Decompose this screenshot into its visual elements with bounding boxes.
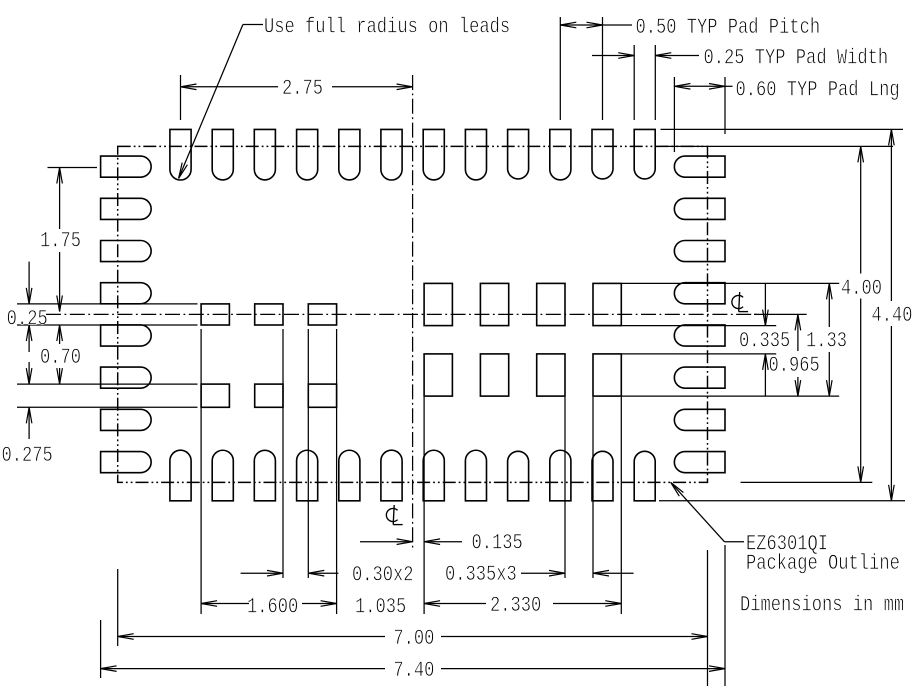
dim 7.00 line — [118, 636, 385, 638]
top pad 7 — [423, 129, 444, 180]
dim 0.60 extension lines — [673, 77, 675, 152]
package outline 7.00 x 4.00 mm (phantom rectangle) — [118, 146, 708, 482]
svg-text:0.275: 0.275 — [2, 442, 53, 468]
right pad 2 — [674, 198, 725, 219]
center pad row B right 4 — [593, 354, 621, 396]
svg-text:7.00: 7.00 — [393, 625, 434, 651]
dim 0.25W extension lines — [633, 45, 635, 120]
right pad 3 — [674, 241, 725, 262]
top pad 9 — [508, 129, 529, 179]
ext line sq2 right — [282, 329, 284, 578]
top pad 11 — [592, 129, 613, 179]
dim 0.335x3 line — [521, 572, 565, 574]
ext line top of pads (4.40) — [661, 128, 904, 130]
dim 0.70 line — [59, 325, 61, 344]
center pad row B right 1 — [424, 354, 452, 396]
bottom pad 3 — [254, 450, 275, 501]
center pad row A right 1 — [424, 283, 452, 325]
svg-text:1.75: 1.75 — [40, 227, 81, 253]
bottom pad 8 — [465, 450, 486, 501]
left pad 4 — [101, 283, 152, 304]
dim 0.25 arrows — [28, 262, 30, 304]
dim 0.60 line — [674, 85, 725, 87]
dim 0.965 line — [797, 314, 799, 351]
dim 0.50 line — [560, 24, 602, 26]
ext line top outline (4.00) — [661, 145, 894, 147]
dim 4.00 line — [860, 146, 862, 273]
dim 0.135 line — [360, 541, 413, 543]
ext line sq3 left — [307, 329, 309, 578]
horizontal centerline — [46, 313, 758, 315]
ext line centerline right — [754, 313, 807, 315]
right pad 8 — [674, 452, 725, 473]
center pad row A left 2 — [255, 304, 283, 325]
bottom pad 7 — [423, 450, 444, 501]
top pad 2 — [212, 129, 233, 180]
ext line row B top — [622, 353, 776, 355]
center pad row B right 3 — [537, 354, 565, 396]
dim 1.33 line — [828, 283, 830, 327]
top pad 3 — [254, 129, 275, 180]
ext line row B top left — [17, 383, 198, 385]
top pad 5 — [339, 129, 360, 180]
ext line row B bottom — [622, 395, 839, 397]
top pad 10 — [550, 129, 571, 180]
bottom pad 11 — [592, 451, 613, 501]
ext line row A bottom left — [17, 324, 198, 326]
centerline symbol bottom — [386, 505, 402, 525]
center pad row A right 2 — [480, 283, 508, 325]
svg-text:1.33: 1.33 — [806, 327, 847, 353]
bottom pad 12 — [634, 451, 655, 501]
right pad 6 — [674, 367, 725, 388]
svg-text:0.25: 0.25 — [7, 305, 48, 331]
left pad 1 — [101, 156, 152, 177]
center pad row B left 3 — [308, 384, 336, 407]
dim 0.50 extension lines — [559, 17, 561, 120]
ext line sq3 right — [336, 329, 338, 614]
centerline symbol right — [732, 292, 748, 312]
right pad 1 — [674, 156, 725, 177]
svg-text:1.035: 1.035 — [355, 593, 406, 619]
dim 0.335 line — [764, 283, 766, 325]
svg-text:0.50 TYP Pad Pitch: 0.50 TYP Pad Pitch — [636, 14, 821, 40]
dim 7.40 extension lines — [100, 620, 102, 678]
bottom pad 5 — [339, 450, 360, 501]
dim 2.75 extension line — [180, 75, 182, 120]
dim 2.75 line — [181, 86, 279, 88]
center pad row A left 3 — [308, 304, 336, 325]
right pad 4 — [674, 283, 725, 304]
top pad 1 — [170, 129, 191, 180]
svg-text:1.600: 1.600 — [247, 593, 298, 619]
dim 1.600 line — [201, 603, 249, 605]
svg-text:0.70: 0.70 — [40, 344, 81, 370]
center pad row B left 2 — [255, 384, 283, 407]
ext line rect4 left — [592, 397, 594, 578]
ext line row A top left — [17, 303, 198, 305]
svg-text:4.00: 4.00 — [841, 275, 882, 301]
dim 7.40 line — [101, 668, 385, 670]
left pad 5 — [101, 325, 152, 346]
bottom pad 10 — [550, 450, 571, 501]
center pad row B left 1 — [201, 384, 229, 407]
top pad 4 — [297, 129, 318, 180]
right pad 5 — [674, 325, 725, 346]
svg-text:0.965: 0.965 — [769, 352, 820, 378]
left pad 7 — [101, 409, 152, 430]
center pad row A right 3 — [537, 283, 565, 325]
dim 0.25W line — [592, 55, 634, 57]
svg-text:Package Outline: Package Outline — [746, 550, 900, 576]
ext line row A top — [622, 282, 839, 284]
dim 1.75 extension line — [48, 167, 98, 169]
dim 4.40 line — [890, 129, 892, 301]
bottom pad 6 — [381, 450, 402, 501]
dim 0.275 arrow — [28, 362, 30, 384]
ext line bottom outline (4.00) — [741, 481, 873, 483]
bottom pad 4 — [297, 450, 318, 501]
top pad 12 — [634, 129, 655, 179]
leader line to top pad 1 — [243, 24, 263, 26]
ext line row B bottom left — [17, 406, 198, 408]
dim 1.75 line — [59, 168, 61, 230]
ext line right group right — [620, 397, 622, 614]
svg-text:Use full radius on leads: Use full radius on leads — [264, 13, 510, 39]
dim 2.330 line — [424, 603, 486, 605]
svg-text:0.25 TYP Pad Width: 0.25 TYP Pad Width — [704, 44, 889, 70]
svg-text:0.135: 0.135 — [472, 529, 523, 555]
vertical centerline — [412, 75, 414, 551]
svg-text:0.335x3: 0.335x3 — [445, 561, 517, 587]
left pad 2 — [101, 198, 152, 219]
dim 0.30x2 line — [241, 572, 283, 574]
center pad row A left 1 — [201, 304, 229, 325]
left pad 6 — [101, 367, 152, 388]
ext line rect3 right — [564, 397, 566, 578]
ext line row A bottom — [622, 325, 776, 327]
leader EZ6301QI line — [724, 541, 744, 543]
svg-text:0.60 TYP Pad Lng: 0.60 TYP Pad Lng — [736, 76, 900, 102]
svg-text:0.335: 0.335 — [739, 327, 790, 353]
left pad 3 — [101, 241, 152, 262]
svg-text:2.75: 2.75 — [282, 75, 323, 101]
bottom pad 1 — [170, 450, 191, 501]
svg-text:0.30x2: 0.30x2 — [352, 561, 414, 587]
left pad 8 — [101, 452, 152, 473]
bottom pad 2 — [212, 450, 233, 501]
center pad row B right 2 — [480, 354, 508, 396]
dim 7.00 extension lines — [117, 569, 119, 646]
svg-text:Dimensions in mm: Dimensions in mm — [740, 591, 904, 617]
center pad row A right 4 — [593, 283, 621, 325]
top pad 6 — [381, 129, 402, 180]
right pad 7 — [674, 409, 725, 430]
ext line sq1 left — [200, 329, 202, 614]
svg-text:2.330: 2.330 — [490, 592, 541, 618]
ext line right group left — [423, 397, 425, 614]
svg-text:7.40: 7.40 — [393, 657, 434, 683]
top pad 8 — [465, 129, 486, 180]
ext line bottom of pads (4.40) — [659, 500, 905, 502]
bottom pad 9 — [508, 451, 529, 501]
svg-text:4.40: 4.40 — [871, 302, 912, 328]
